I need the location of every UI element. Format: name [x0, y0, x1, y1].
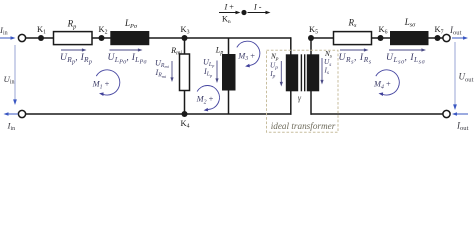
transformer core lines [300, 54, 302, 91]
input current arrow bottom (I_in) [8, 113, 19, 115]
resistor Rmi [180, 54, 190, 91]
svg-text:URs, IRs: URs, IRs [339, 52, 372, 65]
annotation ULSs ILSs with arrow [389, 49, 423, 51]
output current arrow top (I_out) [452, 37, 464, 39]
annotation URs IRs with arrow [340, 49, 365, 51]
wire top rail secondary side [311, 37, 443, 39]
svg-text:ULPσ, ILPσ: ULPσ, ILPσ [108, 52, 148, 65]
svg-text:Rmi: Rmi [170, 46, 182, 57]
svg-text:Kn: Kn [222, 14, 231, 25]
input current arrow top (I_in) [0, 37, 12, 39]
svg-text:Uout: Uout [459, 72, 474, 84]
svg-text:K5: K5 [309, 25, 318, 36]
dashed box ideal transformer [267, 50, 339, 132]
svg-text:K6: K6 [379, 25, 388, 36]
node K1 [38, 35, 44, 41]
node K2 [99, 35, 105, 41]
resistor Rs [334, 32, 372, 45]
annotation URp IRp with arrow [61, 49, 83, 51]
svg-text:K7: K7 [435, 25, 444, 36]
mesh current M4 [376, 70, 400, 96]
wire top rail primary side [26, 37, 291, 39]
svg-text:M3 +: M3 + [237, 51, 255, 62]
svg-text:M1 +: M1 + [92, 80, 110, 91]
terminal output top [443, 34, 450, 41]
svg-text:M4 +: M4 + [373, 80, 391, 91]
terminal input top [18, 34, 25, 41]
svg-text:Lp: Lp [215, 45, 224, 56]
svg-text:URp, IRp: URp, IRp [60, 52, 92, 65]
node Kn [241, 10, 246, 15]
annotation ULPs ILPs with arrow [110, 49, 140, 51]
output current arrow bottom (I_out) [456, 113, 468, 115]
wire shunt branch Lp [228, 38, 230, 114]
svg-text:IRmi: IRmi [155, 68, 167, 79]
resistor Rp [54, 32, 93, 45]
wire bottom rail secondary side [311, 113, 444, 115]
current arrow I+ into node Kn [219, 12, 237, 14]
terminal output bottom [443, 110, 450, 117]
terminal input bottom [18, 110, 25, 117]
svg-text:γ: γ [298, 93, 302, 102]
wire shunt branch Rmi [184, 38, 186, 114]
svg-text:K3: K3 [181, 25, 190, 36]
svg-text:ULsσ, ILsσ: ULsσ, ILsσ [386, 52, 426, 65]
svg-text:Iin: Iin [0, 25, 8, 37]
inductor LPsigma [110, 31, 149, 45]
node K6 [378, 35, 384, 41]
wire transformer secondary vertical [310, 37, 312, 115]
mesh current M3 [237, 41, 260, 67]
svg-text:Iin: Iin [7, 120, 16, 132]
node K7 [435, 35, 441, 41]
svg-text:ideal transformer: ideal transformer [271, 121, 336, 131]
inductor LSsigma [390, 31, 429, 45]
inductor Lp [222, 54, 236, 91]
mesh current M2 [197, 86, 219, 112]
svg-text:K1: K1 [37, 25, 46, 36]
svg-text:Ip: Ip [269, 70, 275, 80]
svg-text:LPσ: LPσ [124, 18, 138, 30]
node K5 [308, 35, 314, 41]
svg-text:I +: I + [224, 3, 235, 12]
svg-text:Iout: Iout [449, 25, 462, 37]
svg-text:Rs: Rs [348, 17, 358, 29]
transformer primary winding [286, 54, 298, 91]
svg-text:K2: K2 [99, 25, 108, 36]
svg-text:K4: K4 [181, 119, 190, 130]
wire transformer primary vertical [290, 37, 292, 115]
input voltage arrow U_in [14, 45, 16, 100]
transformer secondary winding [307, 54, 319, 91]
mesh current M1 [96, 70, 120, 96]
svg-text:Is: Is [324, 66, 330, 76]
svg-text:Rp: Rp [67, 19, 77, 31]
svg-text:ILp: ILp [203, 67, 213, 78]
node K3 [182, 35, 188, 41]
output voltage arrow U_out [454, 42, 456, 105]
svg-text:M2 +: M2 + [196, 95, 214, 106]
svg-text:Lsσ: Lsσ [404, 17, 416, 29]
current arrow I- out of node Kn [248, 12, 267, 14]
svg-text:I -: I - [253, 3, 262, 12]
svg-text:Uin: Uin [4, 74, 15, 86]
node K4 [182, 111, 188, 117]
svg-text:Iout: Iout [456, 120, 469, 132]
wire bottom rail primary side [26, 113, 292, 115]
